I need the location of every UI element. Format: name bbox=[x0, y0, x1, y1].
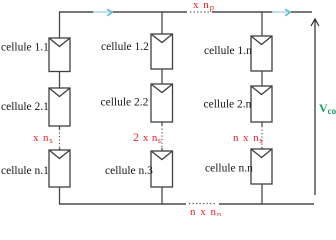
current arrow A1 (cyan) bbox=[93, 9, 112, 16]
wire top bus segment 3 bbox=[212, 11, 273, 13]
cell cellule n.1 bbox=[49, 150, 70, 187]
wire column1 dotted segment bbox=[59, 129, 61, 148]
current arrow A2 (cyan) bbox=[272, 9, 290, 16]
wire column2 stub below cell 2.2 bbox=[161, 122, 163, 125]
svg-text:cellule 1.2: cellule 1.2 bbox=[101, 41, 149, 53]
svg-text:cellule 2.2: cellule 2.2 bbox=[101, 97, 149, 109]
svg-text:cellule 2.1: cellule 2.1 bbox=[1, 101, 49, 113]
svg-text:cellule 1.1: cellule 1.1 bbox=[1, 42, 49, 54]
wire column2 stub into cell n.3 bbox=[161, 148, 163, 152]
cell cellule n.3 bbox=[151, 151, 173, 187]
wire bottom bus dotted segment bbox=[189, 203, 217, 205]
wire column1 drop to bottom bus bbox=[59, 187, 61, 204]
wire column2 between cell 1.2 and cell 2.2 bbox=[161, 69, 163, 85]
wire top bus segment 2 bbox=[113, 11, 187, 13]
wire column2 drop to bottom bus bbox=[161, 187, 163, 204]
wire column3 stub below cell 2.n bbox=[261, 122, 263, 126]
wire column3 stub into cell n.n bbox=[261, 147, 263, 150]
svg-text:cellule n.1: cellule n.1 bbox=[1, 165, 49, 177]
wire top bus segment 4 bbox=[291, 11, 312, 13]
wire column3 between cell 1.n and cell 2.n bbox=[261, 71, 263, 87]
cell cellule 2.n bbox=[251, 86, 272, 122]
wire column1 stub into cell n.1 bbox=[59, 148, 61, 151]
cell cellule 2.2 bbox=[151, 84, 173, 122]
cell cellule 1.2 bbox=[151, 34, 173, 69]
svg-text:cellule 2.n: cellule 2.n bbox=[204, 99, 252, 111]
svg-text:n x ns: n x ns bbox=[233, 132, 264, 145]
wire column1 drop from bus to cell 1.1 bbox=[59, 12, 61, 39]
wire bottom bus segment 2 bbox=[219, 203, 314, 205]
wire top bus segment 1 bbox=[59, 11, 94, 13]
svg-text:cellule n.3: cellule n.3 bbox=[105, 165, 153, 177]
wire top bus dotted segment bbox=[190, 11, 210, 13]
wire column3 dotted segment bbox=[261, 126, 263, 147]
cell cellule n.n bbox=[251, 149, 272, 184]
wire column3 drop from bus to cell 1.n bbox=[261, 12, 263, 37]
Vco arrow line bbox=[311, 19, 319, 195]
svg-text:cellule 1.n: cellule 1.n bbox=[204, 45, 252, 57]
cell cellule 2.1 bbox=[49, 88, 70, 126]
cell cellule 1.1 bbox=[49, 38, 70, 72]
cell cellule 1.n bbox=[251, 36, 272, 71]
svg-text:x np: x np bbox=[193, 0, 215, 12]
wire column3 drop to bottom bus bbox=[261, 184, 263, 204]
svg-text:cellule n.n: cellule n.n bbox=[205, 163, 253, 175]
wire column1 between cell 1.1 and cell 2.1 bbox=[59, 72, 61, 89]
wire column1 stub below cell 2.1 bbox=[59, 126, 61, 129]
wire column2 drop from bus to cell 1.2 bbox=[161, 12, 163, 35]
wire bottom bus segment 1 bbox=[59, 203, 186, 205]
wire column2 dotted segment bbox=[161, 125, 163, 148]
svg-text:2 x ns: 2 x ns bbox=[133, 130, 161, 145]
